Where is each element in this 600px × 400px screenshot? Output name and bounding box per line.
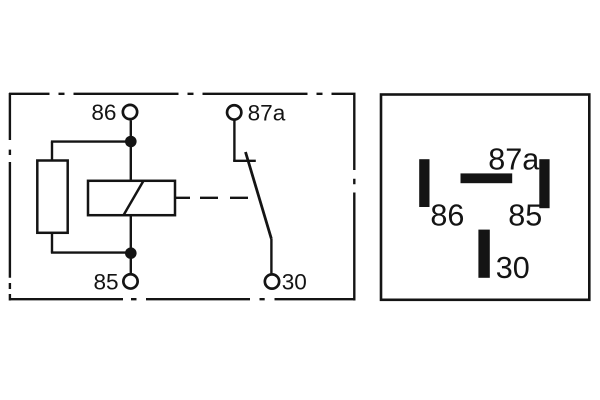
- svg-text:30: 30: [282, 270, 307, 295]
- svg-text:87a: 87a: [248, 100, 286, 125]
- svg-text:87a: 87a: [488, 143, 540, 177]
- svg-text:85: 85: [93, 269, 118, 294]
- svg-text:86: 86: [430, 199, 464, 233]
- svg-text:85: 85: [508, 198, 542, 232]
- svg-text:30: 30: [496, 251, 530, 285]
- svg-text:86: 86: [91, 100, 116, 125]
